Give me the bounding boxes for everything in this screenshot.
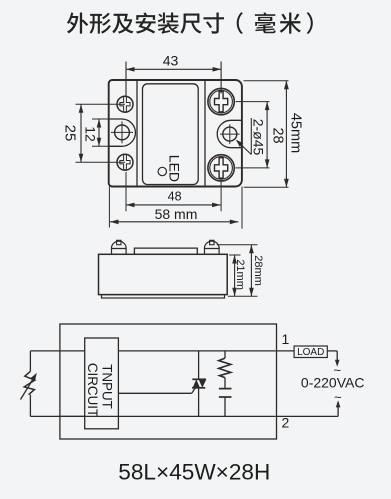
svg-text:0-220VAC: 0-220VAC — [301, 375, 365, 391]
svg-text:LOAD: LOAD — [297, 347, 324, 358]
svg-text:48: 48 — [168, 190, 182, 204]
svg-text:28: 28 — [269, 127, 285, 143]
svg-text:45mm: 45mm — [288, 113, 304, 153]
svg-text:43: 43 — [163, 52, 179, 68]
svg-text:28mm: 28mm — [252, 255, 264, 286]
svg-text:2-ø45: 2-ø45 — [251, 119, 267, 156]
svg-text:LED: LED — [166, 155, 182, 182]
svg-text:58L×45W×28H: 58L×45W×28H — [118, 460, 270, 485]
svg-text:25: 25 — [62, 125, 79, 142]
svg-text:1: 1 — [282, 331, 290, 347]
svg-text:CIRCUIT: CIRCUIT — [85, 363, 100, 417]
svg-text:TNPUT: TNPUT — [100, 364, 115, 409]
svg-text:58 mm: 58 mm — [155, 206, 198, 222]
svg-text:12: 12 — [83, 126, 99, 142]
svg-text:21mm: 21mm — [234, 259, 246, 290]
